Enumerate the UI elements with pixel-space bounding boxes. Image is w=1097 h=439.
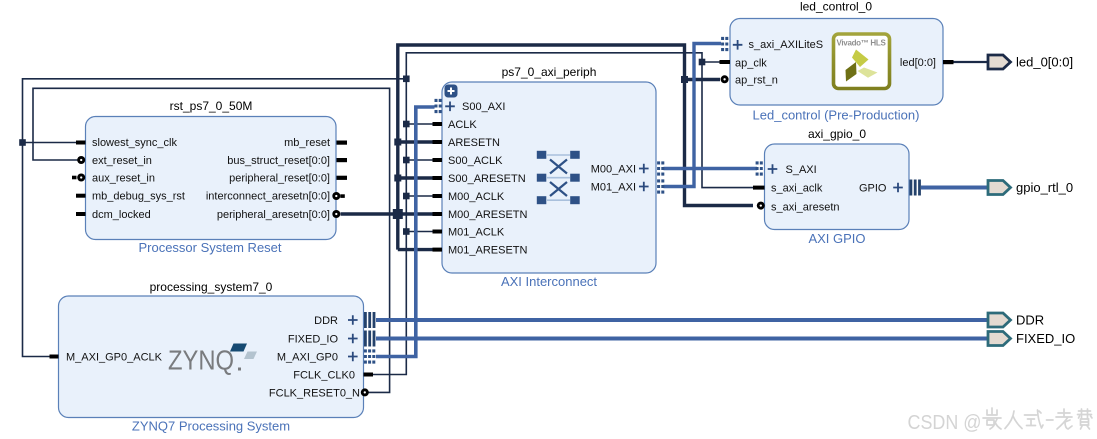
circle peripheral_aresetn [332, 210, 340, 218]
interface wires (blue) [376, 44, 988, 357]
svg-text:ap_clk: ap_clk [735, 58, 767, 70]
svg-text:ZYNQ7 Processing System: ZYNQ7 Processing System [132, 419, 290, 434]
svg-text:interconnect_aresetn[0:0]: interconnect_aresetn[0:0] [206, 191, 330, 203]
stub led[0:0] [943, 60, 954, 64]
block axi_gpio_0 [765, 127, 910, 246]
svg-text:s_axi_aresetn: s_axi_aresetn [771, 202, 840, 214]
svg-text:axi_gpio_0: axi_gpio_0 [808, 127, 866, 141]
svg-text:CSDN @: CSDN @ [908, 412, 982, 434]
费 [1078, 409, 1093, 429]
入 [1005, 411, 1022, 429]
svg-text:Vivado™ HLS: Vivado™ HLS [836, 39, 886, 48]
svg-text:GPIO: GPIO [859, 183, 887, 195]
svg-text:S00_ARESETN: S00_ARESETN [448, 173, 526, 185]
stub M_AXI_GP0_ACLK [50, 355, 59, 359]
svg-text:FIXED_IO: FIXED_IO [1016, 331, 1075, 346]
嵌 [983, 408, 1001, 429]
svg-text:M_AXI_GP0: M_AXI_GP0 [277, 352, 338, 364]
block processing_system7_0 (ZYNQ) [59, 280, 364, 434]
wire DDR [376, 318, 988, 322]
dotted stub M01_AXI [659, 179, 663, 193]
FIXED_IO triple-bar stub [364, 331, 375, 347]
pin stubs: reset block left [72, 141, 86, 217]
svg-text:S00_AXI: S00_AXI [462, 101, 505, 113]
式 [1025, 410, 1044, 428]
svg-text:Processor System Reset: Processor System Reset [138, 240, 281, 255]
circle s_axi_aresetn [757, 202, 765, 210]
dotted stub S00_AXI [436, 99, 440, 113]
svg-text:FIXED_IO: FIXED_IO [288, 334, 339, 346]
GPIO triple-bar stub [910, 180, 921, 196]
wire: led[0:0] to port [953, 61, 988, 63]
crossbar icon [537, 151, 580, 204]
watermark CSDN @嵌入式-老费 [908, 408, 1093, 434]
pin stubs axi_gpio: dotted stub S_AXI [757, 161, 761, 175]
svg-text:peripheral_reset[0:0]: peripheral_reset[0:0] [229, 173, 330, 185]
circle ext_reset_in [77, 156, 85, 164]
svg-text:ext_reset_in: ext_reset_in [92, 155, 152, 167]
wire: scalar thin clock net (FCLK_CLK0) [23, 53, 754, 393]
circle ap_rst_n [721, 75, 729, 83]
svg-text:s_axi_AXILiteS: s_axi_AXILiteS [749, 39, 824, 51]
svg-text:led_0[0:0]: led_0[0:0] [1016, 55, 1073, 70]
M_AXI_GP0 dotted stub [365, 349, 373, 363]
svg-text:peripheral_aresetn[0:0]: peripheral_aresetn[0:0] [217, 209, 330, 221]
svg-text:M01_AXI: M01_AXI [591, 182, 636, 194]
expand button [445, 85, 458, 98]
wire FIXED_IO [376, 337, 988, 341]
svg-text:gpio_rtl_0: gpio_rtl_0 [1016, 180, 1073, 195]
svg-text:DDR: DDR [1016, 313, 1044, 328]
svg-text:M01_ARESETN: M01_ARESETN [448, 245, 528, 257]
svg-text:bus_struct_reset[0:0]: bus_struct_reset[0:0] [227, 155, 330, 167]
svg-text:FCLK_RESET0_N: FCLK_RESET0_N [269, 388, 360, 400]
stub ap_clk [720, 60, 731, 64]
wire: thick aresetn net (peripheral_aresetn) [341, 45, 754, 250]
svg-text:ACLK: ACLK [448, 119, 477, 131]
svg-text:Led_control (Pre-Production): Led_control (Pre-Production) [753, 108, 920, 123]
pin stubs: interconnect left scalar [433, 122, 443, 252]
port gpio_rtl_0 [988, 180, 1073, 195]
port FIXED_IO [988, 331, 1075, 346]
老 [1056, 409, 1072, 429]
wire M00_AXI -> S_AXI [664, 167, 758, 170]
svg-text:mb_reset: mb_reset [284, 137, 330, 149]
port DDR [988, 313, 1044, 328]
svg-text:S_AXI: S_AXI [786, 164, 817, 176]
- [1047, 419, 1054, 421]
svg-text:FCLK_CLK0: FCLK_CLK0 [293, 370, 355, 382]
svg-text:M01_ACLK: M01_ACLK [448, 227, 505, 239]
port led_0[0:0] [988, 55, 1073, 70]
block ps7_0_axi_periph (AXI Interconnect) [442, 65, 656, 289]
svg-text:ZYNQ: ZYNQ [168, 345, 234, 376]
svg-text:mb_debug_sys_rst: mb_debug_sys_rst [92, 191, 185, 203]
Vivado HLS logo [834, 34, 890, 89]
svg-text:AXI Interconnect: AXI Interconnect [501, 274, 597, 289]
svg-text:led[0:0]: led[0:0] [900, 57, 936, 69]
wire M01_AXI -> s_axi_AXILiteS [664, 44, 722, 187]
svg-text:ap_rst_n: ap_rst_n [735, 75, 778, 87]
svg-text:M00_AXI: M00_AXI [591, 164, 636, 176]
svg-text:led_control_0: led_control_0 [800, 0, 872, 14]
circle aux_reset_in [77, 174, 85, 182]
pin stubs led_control: dotted stub s_axi_AXILiteS [723, 37, 727, 51]
wire GPIO -> gpio_rtl_0 [921, 186, 988, 190]
block led_control_0 [730, 0, 943, 123]
ZYNQ logo [168, 344, 257, 376]
FCLK_CLK0 stub [364, 373, 374, 377]
svg-text:aux_reset_in: aux_reset_in [92, 173, 155, 185]
circle FCLK_RESET0_N [361, 388, 369, 396]
dotted stub M00_AXI [659, 161, 663, 175]
svg-text:M00_ACLK: M00_ACLK [448, 191, 505, 203]
svg-text:rst_ps7_0_50M: rst_ps7_0_50M [170, 99, 253, 113]
S00_AXI plus [445, 102, 455, 112]
svg-text:M_AXI_GP0_ACLK: M_AXI_GP0_ACLK [66, 352, 163, 364]
svg-text:slowest_sync_clk: slowest_sync_clk [92, 137, 177, 149]
svg-text:AXI GPIO: AXI GPIO [808, 231, 865, 246]
pin stubs: reset block right [337, 141, 348, 198]
svg-text:s_axi_aclk: s_axi_aclk [771, 183, 823, 195]
svg-text:S00_ACLK: S00_ACLK [448, 155, 503, 167]
circle interconnect_aresetn [332, 192, 340, 200]
svg-text:ARESETN: ARESETN [448, 137, 500, 149]
wire: FCLK_RESET0_N net [33, 88, 390, 392]
wire M_AXI_GP0 -> S00_AXI [376, 107, 435, 357]
DDR triple-bar stub [364, 312, 375, 328]
block rst_ps7_0_50M (Processor System Reset) [86, 99, 337, 255]
stub s_axi_aclk [753, 186, 765, 190]
svg-text:dcm_locked: dcm_locked [92, 209, 151, 221]
svg-text:processing_system7_0: processing_system7_0 [150, 280, 273, 294]
svg-text:DDR: DDR [314, 315, 338, 327]
svg-text:M00_ARESETN: M00_ARESETN [448, 209, 528, 221]
svg-text:ps7_0_axi_periph: ps7_0_axi_periph [502, 65, 597, 79]
